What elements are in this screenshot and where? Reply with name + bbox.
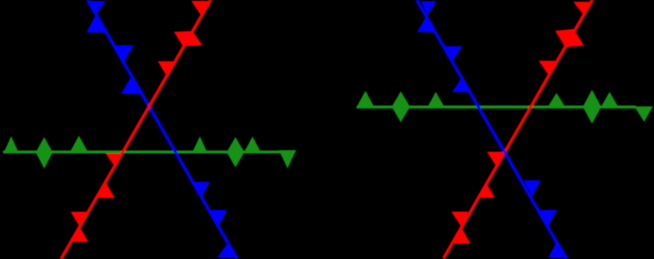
node B5: blue down-triangle — [210, 210, 227, 226]
node G1: green up-triangle — [4, 136, 19, 153]
node R1: red down-triangle top — [191, 1, 209, 15]
node Gr6: green up-triangle — [600, 92, 618, 108]
node B6: blue up-triangle — [217, 244, 236, 258]
node B3': blue up-triangle — [452, 79, 470, 92]
node B6': blue up-triangle — [548, 240, 567, 257]
node G3: green up-triangle — [69, 136, 88, 154]
node B1: blue bowtie top — [87, 1, 107, 32]
node B1': blue bowtie top — [417, 1, 436, 32]
node R6: red bowtie bottom — [71, 212, 89, 242]
wire: red diagonal line (left) — [61, 0, 211, 259]
node R2: red diamond parallelogram — [174, 31, 203, 46]
node R3': red down-triangle — [539, 61, 557, 76]
node Gr4: green up-triangle — [547, 93, 565, 108]
wire: blue diagonal line (left) — [88, 0, 238, 259]
node B3: blue up-triangle — [121, 78, 140, 94]
node R2': red diamond parallelogram — [555, 29, 584, 47]
node G8: green down-triangle end — [279, 150, 296, 168]
node R1': red down-triangle top — [573, 2, 591, 16]
node Gr1: green up-triangle — [356, 91, 375, 108]
wire: green horizontal line (left) — [3, 151, 281, 154]
node G6: green diamond — [227, 137, 245, 167]
node R4': red down-triangle below crossing — [487, 152, 505, 166]
node Gr5: green diamond — [583, 90, 601, 124]
node B5': blue down-triangle — [540, 210, 557, 226]
node R3: red down-triangle — [158, 61, 175, 75]
node G5: green up-triangle — [192, 136, 208, 153]
wire: red diagonal line (right) — [444, 0, 593, 259]
node B2': blue down-triangle — [445, 46, 462, 60]
node R5: red up-triangle — [97, 182, 115, 198]
node B2: blue down-triangle — [115, 45, 134, 61]
node G7: green up-triangle — [244, 137, 262, 154]
node G2: green diamond — [36, 137, 53, 169]
node Gr2: green diamond — [392, 91, 410, 122]
node B4': blue down-triangle — [524, 180, 541, 196]
wire: blue diagonal line (right) — [417, 0, 567, 259]
node Gr3: green up-triangle — [427, 92, 445, 108]
node R5': red up-triangle — [477, 183, 495, 198]
node R6': red bowtie bottom — [451, 212, 470, 244]
node R4: red down-triangle below green line — [106, 153, 123, 166]
node Gr7: green down-triangle end — [634, 106, 653, 121]
wire: green horizontal line (right) — [357, 106, 636, 109]
node B4: blue down-triangle — [193, 182, 210, 197]
